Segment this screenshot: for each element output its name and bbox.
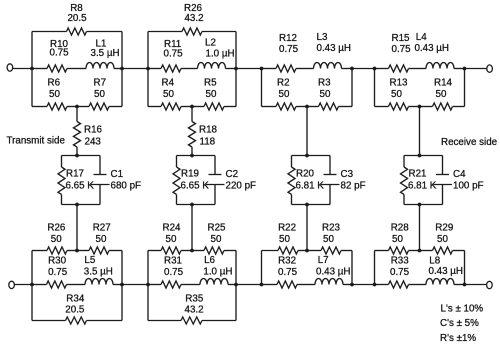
wire: [306, 107, 308, 156]
svg-text:Transmit side: Transmit side: [7, 136, 66, 147]
wire: [121, 32, 123, 107]
svg-text:R7: R7: [94, 78, 107, 89]
svg-text:R16: R16: [84, 125, 103, 136]
terminal bottom-left port: [9, 281, 15, 288]
svg-text:R3: R3: [318, 78, 331, 89]
resistor R24: [148, 223, 192, 255]
svg-text:R33: R33: [391, 256, 410, 267]
junction: [190, 154, 194, 158]
svg-text:R27: R27: [93, 223, 111, 234]
svg-text:50: 50: [323, 234, 334, 245]
junction: [305, 203, 309, 207]
resistor R3: [307, 78, 352, 111]
junction: [234, 67, 238, 71]
svg-text:R31: R31: [164, 256, 182, 267]
junction: [418, 105, 422, 109]
wire: [191, 147, 193, 156]
wire: [122, 284, 148, 286]
wire: [292, 155, 331, 157]
resistor R19: [173, 156, 209, 205]
junction: [30, 283, 34, 287]
svg-text:R25: R25: [208, 223, 227, 234]
junction: [463, 283, 467, 287]
svg-text:0.75: 0.75: [164, 267, 184, 278]
wire: [147, 251, 149, 321]
inductor L2: [192, 38, 236, 69]
resistor R21: [401, 156, 437, 205]
svg-text:L2: L2: [205, 38, 216, 49]
resistor R5: [192, 78, 236, 111]
wire: [404, 204, 443, 206]
svg-text:1.0 µH: 1.0 µH: [206, 49, 235, 60]
junction: [146, 67, 150, 71]
wire: [62, 204, 101, 206]
svg-text:L5: L5: [84, 255, 95, 266]
resistor R15: [375, 33, 420, 72]
wire: [419, 205, 421, 251]
svg-text:6.65 K: 6.65 K: [181, 181, 210, 192]
junction: [260, 67, 264, 71]
resistor R13: [375, 78, 420, 111]
junction: [75, 203, 79, 207]
junction: [190, 105, 194, 109]
wire: [147, 32, 149, 107]
svg-text:R17: R17: [66, 169, 84, 180]
svg-text:R34: R34: [66, 294, 85, 305]
svg-text:0.75: 0.75: [392, 44, 412, 55]
svg-text:C1: C1: [111, 169, 124, 180]
svg-text:43.2: 43.2: [185, 305, 204, 316]
junction: [75, 105, 79, 109]
svg-text:R20: R20: [296, 169, 315, 180]
resistor R26 top: [148, 3, 236, 35]
svg-text:R24: R24: [163, 223, 182, 234]
junction: [305, 154, 309, 158]
svg-text:Receive side: Receive side: [441, 137, 498, 148]
resistor R10: [32, 39, 77, 72]
svg-text:243: 243: [85, 137, 102, 148]
svg-text:50: 50: [49, 89, 60, 100]
capacitor C3: [321, 156, 366, 205]
resistor R23: [307, 223, 352, 255]
svg-text:82 pF: 82 pF: [341, 181, 366, 192]
svg-text:0.75: 0.75: [48, 267, 68, 278]
svg-text:3.5 µH: 3.5 µH: [84, 267, 113, 278]
wire: [191, 205, 193, 251]
wire: [465, 68, 487, 70]
svg-text:0.43 µH: 0.43 µH: [317, 43, 352, 54]
svg-text:3.5 µH: 3.5 µH: [91, 48, 120, 59]
svg-text:L4: L4: [416, 32, 427, 43]
svg-text:R15: R15: [392, 33, 411, 44]
svg-text:R18: R18: [199, 125, 218, 136]
junction: [75, 154, 79, 158]
resistor R6: [32, 78, 77, 111]
wire: [261, 69, 263, 107]
svg-text:C's ± 5%: C's ± 5%: [440, 318, 479, 329]
wire: [352, 68, 375, 70]
junction: [350, 283, 354, 287]
resistor R11: [148, 39, 192, 72]
junction: [305, 105, 309, 109]
svg-text:0.43 µH: 0.43 µH: [415, 43, 450, 54]
wire: [62, 155, 101, 157]
svg-text:R13: R13: [390, 78, 409, 89]
svg-text:R29: R29: [435, 223, 453, 234]
svg-text:50: 50: [163, 89, 174, 100]
wire: [236, 68, 262, 70]
junction: [418, 249, 422, 253]
svg-text:L8: L8: [429, 256, 440, 267]
junction: [418, 154, 422, 158]
junction: [190, 249, 194, 253]
resistor R12: [262, 33, 308, 72]
resistor R28: [375, 223, 420, 255]
terminal bottom-right port: [487, 281, 493, 288]
svg-text:20.5: 20.5: [67, 13, 87, 24]
wire: [352, 284, 375, 286]
svg-text:100 pF: 100 pF: [453, 181, 484, 192]
wire: [374, 69, 376, 107]
resistor R14: [420, 78, 465, 111]
resistor R16: [74, 122, 103, 148]
capacitor C1: [91, 156, 141, 205]
resistor R31: [148, 256, 192, 289]
svg-text:0.75: 0.75: [390, 267, 410, 278]
resistor R27: [77, 223, 122, 255]
svg-text:50: 50: [279, 89, 290, 100]
wire: [464, 69, 466, 107]
wire: [76, 205, 78, 251]
inductor L1: [77, 39, 122, 69]
inductor L8: [420, 256, 465, 285]
svg-text:6.81 K: 6.81 K: [408, 181, 437, 192]
svg-text:0.75: 0.75: [164, 49, 184, 60]
terminal top-right port: [487, 65, 493, 72]
wire: [31, 251, 33, 321]
resistor R2: [262, 78, 308, 111]
junction: [418, 203, 422, 207]
junction: [260, 283, 264, 287]
svg-text:C3: C3: [341, 169, 354, 180]
inductor L5: [77, 255, 122, 285]
svg-text:680 pF: 680 pF: [111, 181, 142, 192]
wire: [306, 205, 308, 251]
resistor R17: [58, 156, 94, 205]
resistor R8: [32, 3, 122, 35]
svg-text:50: 50: [96, 234, 107, 245]
svg-text:50: 50: [392, 234, 403, 245]
svg-text:0.75: 0.75: [279, 44, 299, 55]
wire: [76, 147, 78, 156]
wire: [351, 251, 353, 285]
junction: [234, 283, 238, 287]
svg-text:50: 50: [437, 234, 448, 245]
resistor R26 bottom: [32, 223, 77, 255]
svg-text:L7: L7: [318, 255, 329, 266]
wire: [292, 204, 331, 206]
svg-text:R28: R28: [391, 223, 410, 234]
svg-text:0.75: 0.75: [50, 48, 70, 59]
svg-text:R's ±1%: R's ±1%: [440, 333, 476, 344]
svg-text:C2: C2: [226, 169, 239, 180]
junction: [146, 283, 150, 287]
junction: [463, 67, 467, 71]
svg-text:1.0 µH: 1.0 µH: [203, 267, 232, 278]
resistor R35: [148, 294, 236, 325]
svg-text:50: 50: [436, 89, 447, 100]
svg-text:50: 50: [206, 89, 217, 100]
svg-text:R19: R19: [181, 169, 199, 180]
junction: [305, 249, 309, 253]
capacitor C4: [434, 156, 484, 205]
svg-text:6.81 K: 6.81 K: [296, 181, 325, 192]
svg-text:220 pF: 220 pF: [226, 181, 257, 192]
resistor R22: [262, 223, 308, 255]
svg-text:R2: R2: [277, 78, 290, 89]
resistor R29: [420, 223, 465, 255]
svg-text:20.5: 20.5: [65, 305, 85, 316]
svg-text:R12: R12: [279, 33, 297, 44]
resistor R7: [77, 78, 122, 111]
resistor R25: [192, 223, 236, 255]
svg-text:50: 50: [279, 234, 290, 245]
svg-text:50: 50: [320, 89, 331, 100]
wire: [177, 204, 216, 206]
svg-text:50: 50: [391, 89, 402, 100]
inductor L7: [307, 255, 352, 285]
svg-text:R21: R21: [409, 169, 427, 180]
junction: [190, 203, 194, 207]
wire: [374, 251, 376, 285]
wire: [15, 284, 33, 286]
wire: [76, 107, 78, 122]
wire: [464, 251, 466, 285]
junction: [373, 283, 377, 287]
resistor R30: [32, 256, 77, 289]
svg-text:L3: L3: [317, 32, 328, 43]
resistor R20: [288, 156, 324, 205]
junction: [120, 283, 124, 287]
wire: [122, 68, 148, 70]
svg-text:0.43 µH: 0.43 µH: [429, 266, 464, 277]
svg-text:R30: R30: [48, 256, 67, 267]
wire: [419, 107, 421, 156]
wire: [404, 155, 443, 157]
svg-text:R5: R5: [204, 78, 217, 89]
terminal top-left port: [7, 64, 13, 71]
svg-text:50: 50: [166, 234, 177, 245]
svg-text:L6: L6: [204, 255, 215, 266]
resistor R32: [262, 256, 308, 289]
svg-text:C4: C4: [453, 169, 466, 180]
inductor L6: [192, 255, 236, 285]
wire: [31, 32, 33, 107]
wire: [235, 251, 237, 321]
wire: [235, 32, 237, 107]
wire: [351, 69, 353, 107]
wire: [236, 284, 262, 286]
svg-text:50: 50: [94, 89, 105, 100]
inductor L4: [415, 32, 465, 69]
svg-text:R35: R35: [185, 294, 204, 305]
wire: [191, 107, 193, 122]
resistor R34: [32, 294, 122, 325]
svg-text:0.43 µH: 0.43 µH: [316, 267, 351, 278]
junction: [75, 249, 79, 253]
wire: [121, 251, 123, 321]
wire: [261, 251, 263, 285]
capacitor C2: [206, 156, 256, 205]
junction: [30, 67, 34, 71]
svg-text:50: 50: [51, 234, 62, 245]
svg-text:6.65 K: 6.65 K: [66, 181, 95, 192]
junction: [350, 67, 354, 71]
inductor L3: [307, 32, 352, 69]
junction: [373, 67, 377, 71]
svg-text:43.2: 43.2: [184, 13, 203, 24]
svg-text:R22: R22: [278, 223, 296, 234]
svg-text:R32: R32: [278, 256, 296, 267]
svg-text:R14: R14: [434, 78, 453, 89]
junction: [120, 67, 124, 71]
wire: [13, 68, 32, 70]
svg-text:50: 50: [211, 234, 222, 245]
svg-text:R4: R4: [162, 78, 175, 89]
svg-text:R26: R26: [47, 223, 66, 234]
svg-text:118: 118: [200, 137, 216, 148]
resistor R33: [375, 256, 420, 289]
wire: [465, 284, 487, 286]
svg-text:L's ± 10%: L's ± 10%: [441, 304, 484, 315]
resistor R18: [189, 122, 218, 148]
resistor R4: [148, 78, 192, 111]
wire: [177, 155, 216, 157]
svg-text:0.75: 0.75: [278, 267, 298, 278]
svg-text:R23: R23: [322, 223, 341, 234]
svg-text:R6: R6: [48, 78, 61, 89]
